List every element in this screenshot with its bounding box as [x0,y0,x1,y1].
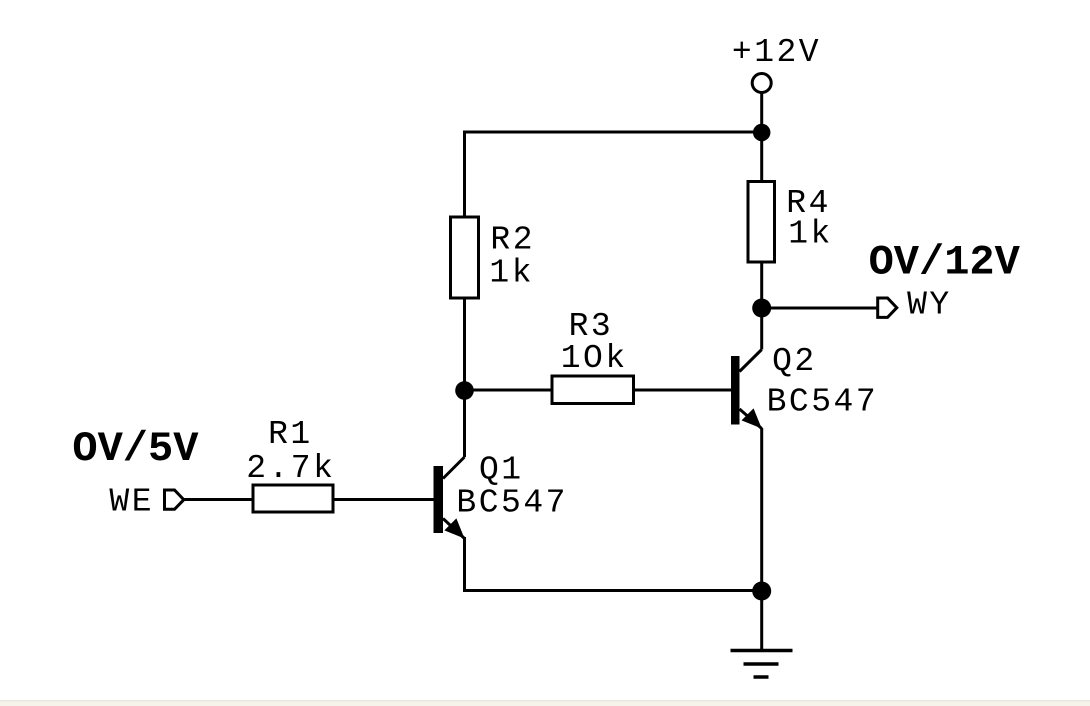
svg-text:Q1: Q1 [479,452,524,489]
wire WE connector to R1 [184,498,254,501]
svg-text:OV/12V: OV/12V [869,239,1021,287]
node emitter junction bottom [752,582,771,601]
wire left vertical from top bus to R2 [463,131,466,218]
svg-text:2.7k: 2.7k [246,450,335,487]
power terminal +12V [752,74,771,93]
wire Q1 emitter vertical [463,537,466,591]
transistor Q2 [731,308,762,429]
resistor R2 [451,217,479,298]
resistor R1 [253,485,333,512]
wire bottom horizontal [463,589,762,592]
node WY junction [752,299,771,318]
wire +12V terminal to R4 top [760,94,763,182]
svg-text:1k: 1k [489,255,534,292]
connector WY output port [878,298,897,317]
connector WE input port [165,490,184,509]
wire top horizontal bus [463,131,762,134]
wire Q2 emitter vertical [760,428,763,592]
svg-text:WE: WE [109,484,154,521]
wire R4 bottom to WY node [760,262,763,308]
svg-text:R1: R1 [268,416,313,453]
wire R1 right to Q1 base [333,498,434,501]
svg-text:1Ok: 1Ok [561,340,628,377]
transistor Q1 [434,457,465,539]
resistor R4 [748,182,775,263]
ground [731,651,793,678]
node junction at +12V bus [753,124,771,142]
svg-text:R2: R2 [490,222,535,259]
svg-text:BC547: BC547 [456,485,568,522]
svg-text:1k: 1k [788,216,833,253]
svg-text:OV/5V: OV/5V [72,425,199,473]
svg-text:+12V: +12V [732,34,821,71]
resistor R3 [552,376,634,404]
wire node B to R3 left [465,389,553,392]
svg-text:BC547: BC547 [767,384,879,421]
svg-text:Q2: Q2 [772,343,817,380]
svg-text:WY: WY [907,287,952,324]
wire R2 bottom to node B [463,298,466,457]
wire WY node to output connector [762,307,878,310]
node B junction (R2/R3/Q1 collector) [455,381,474,400]
wire R3 right to Q2 base [634,389,732,392]
bottom page strip [0,700,1090,702]
wire ground lead [760,591,763,651]
